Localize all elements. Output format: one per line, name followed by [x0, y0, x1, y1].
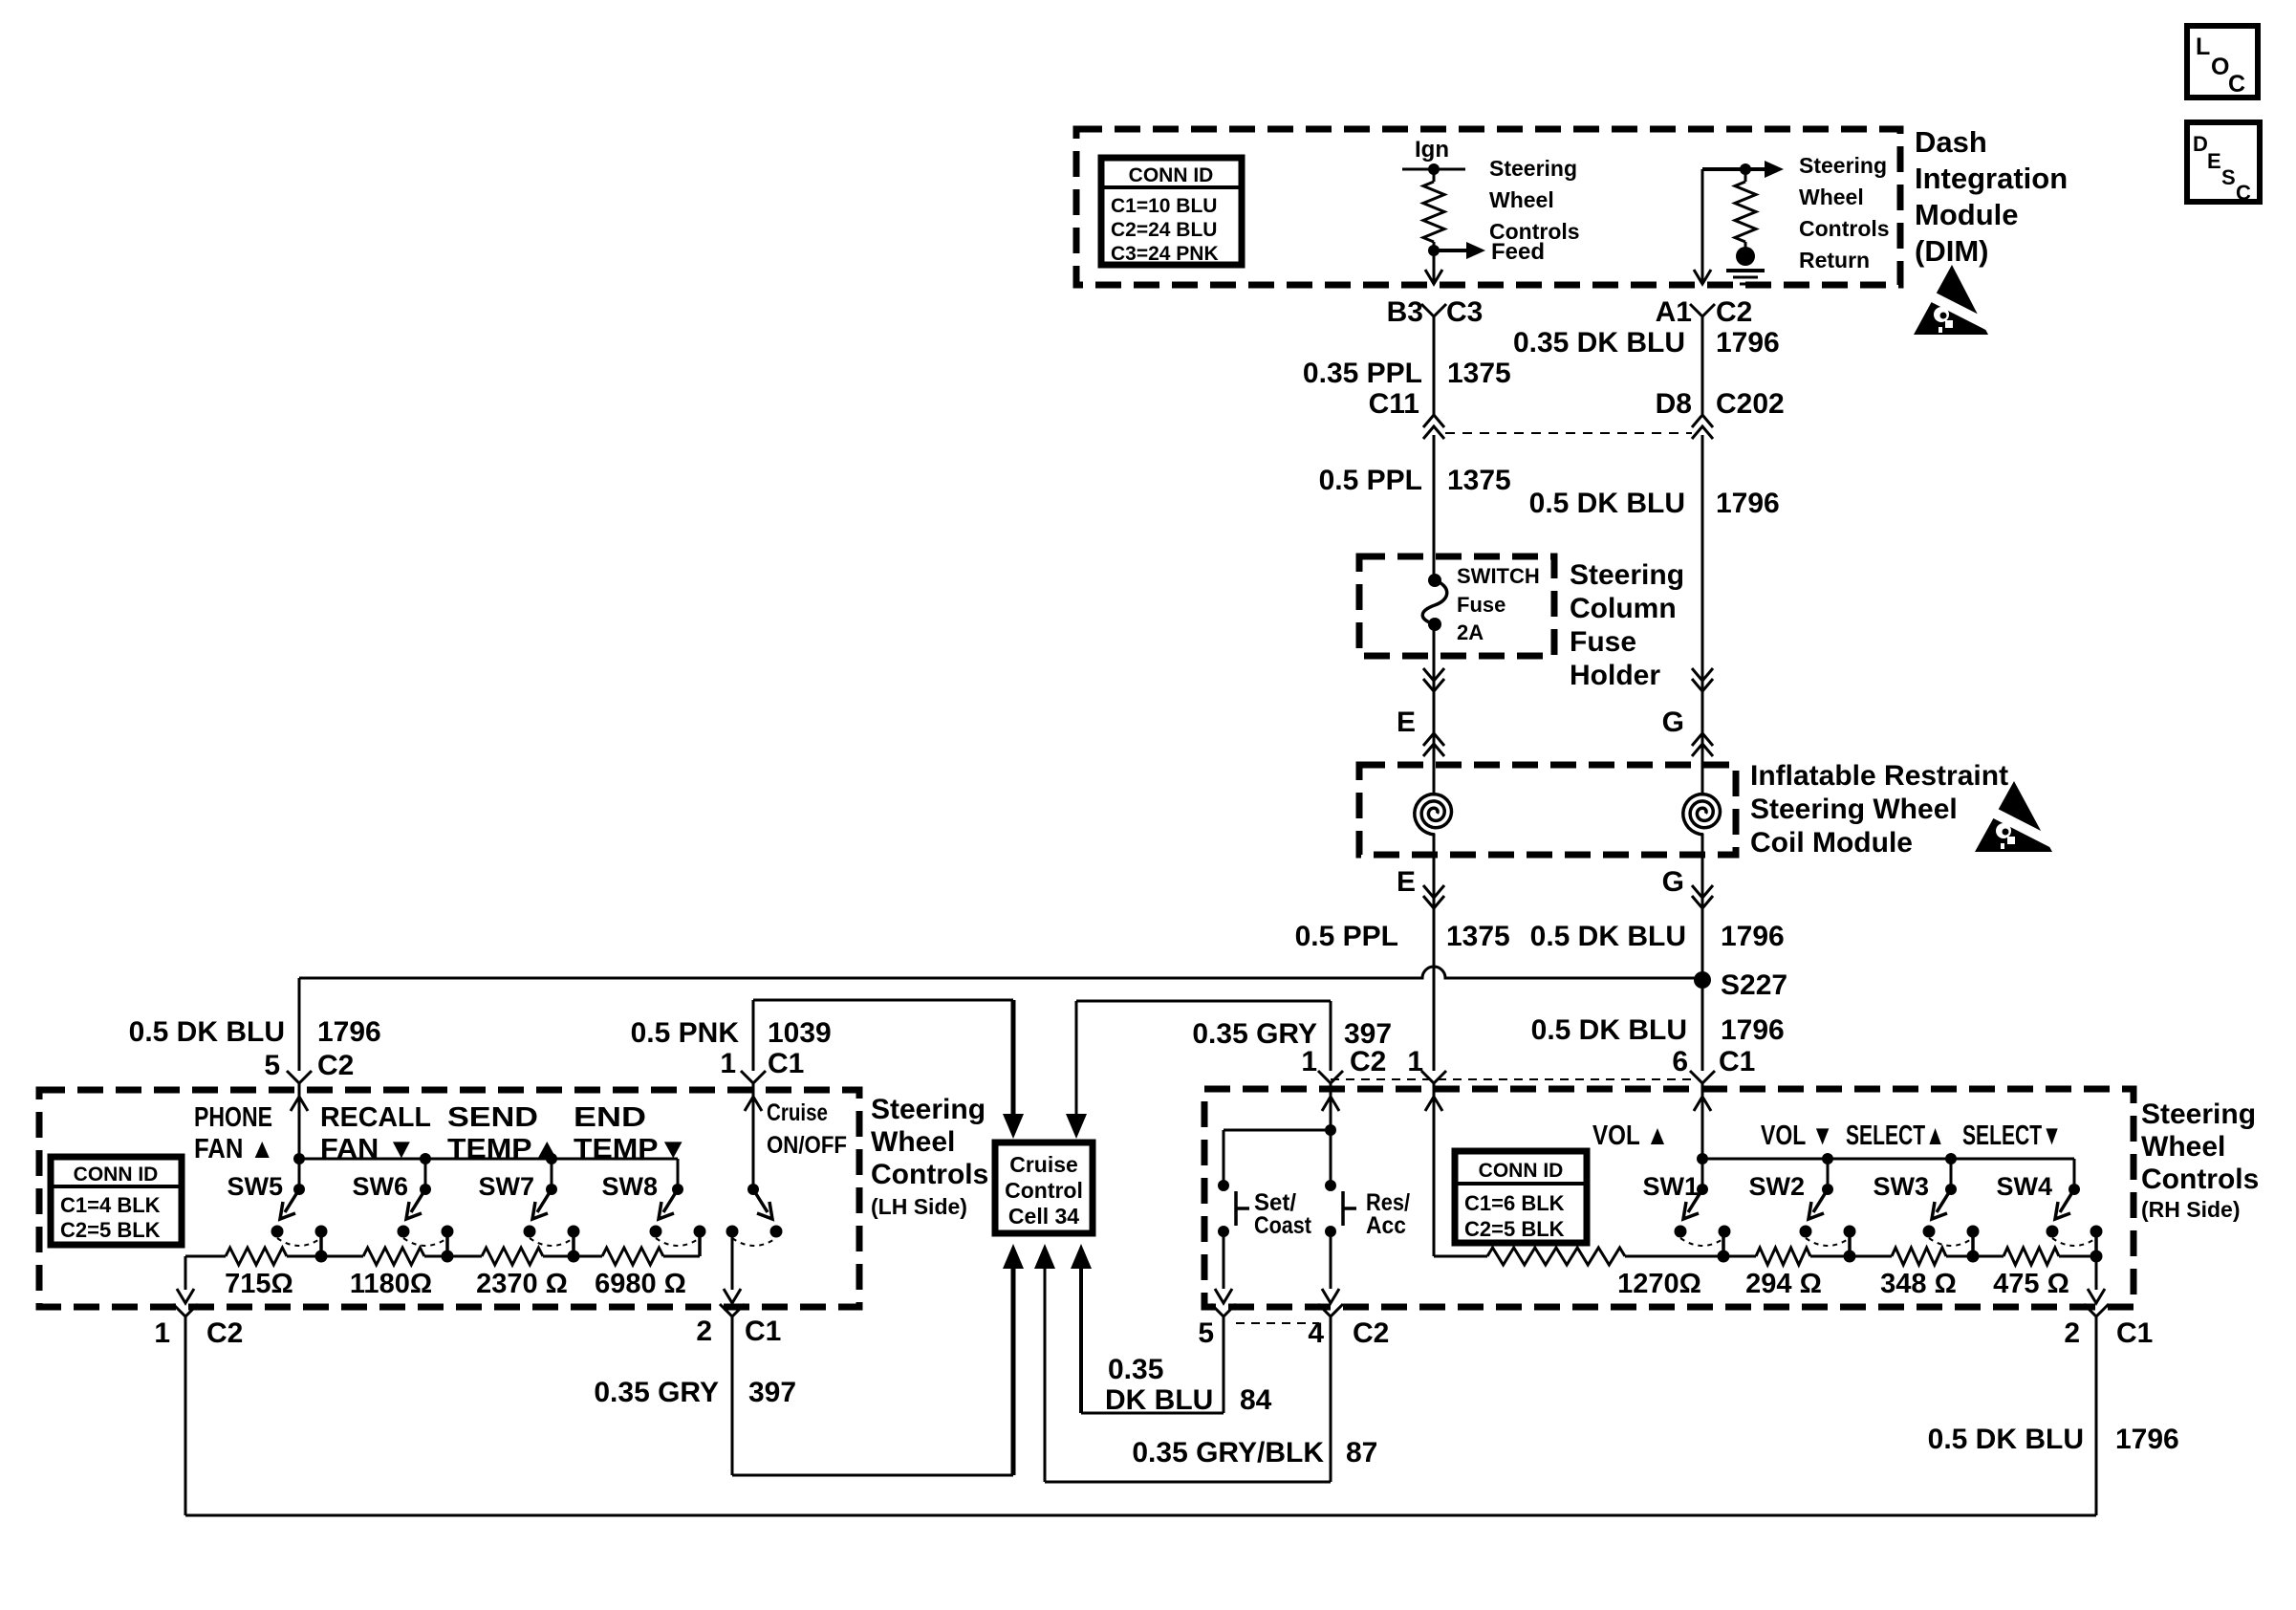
wire 0.35 GRY 397 into set/coast box — [1330, 1001, 1332, 1071]
svg-text:Steering: Steering — [871, 1094, 986, 1125]
CONN ID table (RH) — [1455, 1151, 1587, 1243]
svg-text:Cell 34: Cell 34 — [1008, 1204, 1079, 1229]
svg-text:D: D — [2193, 132, 2208, 156]
svg-text:C1: C1 — [2116, 1317, 2153, 1349]
svg-text:1: 1 — [720, 1048, 736, 1079]
svg-text:C1: C1 — [1719, 1046, 1755, 1077]
svg-text:475 Ω: 475 Ω — [1993, 1269, 2069, 1299]
wire 0.35 DK BLU 1796 — [1701, 316, 1704, 416]
svg-text:C1=4 BLK: C1=4 BLK — [60, 1193, 161, 1217]
svg-text:1: 1 — [1301, 1046, 1317, 1077]
svg-text:S: S — [2221, 165, 2236, 189]
svg-text:O: O — [2211, 54, 2229, 80]
wire GRY/BLK 87 into cruise bottom (arrow up) — [1044, 1265, 1047, 1482]
svg-text:2A: 2A — [1457, 620, 1484, 644]
svg-text:Acc: Acc — [1366, 1212, 1406, 1239]
Steering Wheel Controls (LH Side) dashed box — [39, 1090, 859, 1307]
svg-text:1796: 1796 — [317, 1016, 381, 1048]
svg-text:1: 1 — [154, 1317, 170, 1349]
wire 0.35 PPL 1375 — [1433, 316, 1436, 416]
svg-text:Fuse: Fuse — [1457, 593, 1505, 617]
resistor 715 ohm — [226, 1248, 287, 1265]
svg-text:0.35 GRY: 0.35 GRY — [1192, 1018, 1317, 1050]
svg-text:CONN ID: CONN ID — [1129, 164, 1214, 186]
svg-text:84: 84 — [1240, 1384, 1272, 1416]
svg-text:SWITCH: SWITCH — [1457, 564, 1540, 588]
svg-text:G: G — [1662, 866, 1684, 898]
LOC reference box — [2187, 26, 2258, 98]
svg-text:Controls: Controls — [1489, 219, 1580, 244]
wire PNK into cruise control top (arrow down) — [1011, 1000, 1016, 1118]
svg-text:C3: C3 — [1446, 296, 1483, 328]
svg-text:0.5 DK BLU: 0.5 DK BLU — [1529, 488, 1685, 519]
svg-text:VOL ▼: VOL ▼ — [1761, 1120, 1833, 1151]
wire 0.5 DK BLU 1796 to LH controls — [298, 978, 301, 1071]
svg-text:2: 2 — [696, 1316, 712, 1347]
Steering Column Fuse Holder dashed box — [1359, 556, 1554, 656]
node chain end SW8 — [698, 1231, 702, 1256]
node chain junction SW2 — [1848, 1231, 1852, 1256]
svg-text:Coil Module: Coil Module — [1750, 827, 1913, 859]
svg-text:SW3: SW3 — [1873, 1172, 1929, 1201]
svg-text:2370 Ω: 2370 Ω — [476, 1269, 568, 1299]
svg-text:SEND: SEND — [447, 1102, 538, 1133]
wire bottom return run — [185, 1514, 2096, 1517]
svg-text:(DIM): (DIM) — [1915, 234, 1988, 268]
coil left (clockspring) — [1433, 765, 1436, 793]
resistor 1270 ohm — [1487, 1248, 1625, 1265]
svg-text:CONN ID: CONN ID — [74, 1164, 159, 1186]
svg-text:5: 5 — [264, 1050, 280, 1081]
splice S227 — [1694, 971, 1711, 989]
svg-text:C1=6 BLK: C1=6 BLK — [1464, 1191, 1565, 1215]
wire 0.5 PPL 1375 — [1433, 435, 1436, 556]
dashed connector line C202 — [1445, 432, 1692, 434]
svg-text:1796: 1796 — [1716, 488, 1780, 519]
wire RH resistor chain — [1434, 1255, 1487, 1258]
svg-text:715Ω: 715Ω — [225, 1269, 293, 1299]
svg-text:(RH Side): (RH Side) — [2141, 1197, 2241, 1222]
svg-text:PHONE: PHONE — [194, 1102, 272, 1133]
svg-text:0.35: 0.35 — [1108, 1354, 1163, 1385]
svg-text:294 Ω: 294 Ω — [1745, 1269, 1822, 1299]
svg-text:6980 Ω: 6980 Ω — [595, 1269, 686, 1299]
wire LH resistor chain — [185, 1255, 226, 1258]
svg-text:Wheel: Wheel — [871, 1126, 955, 1158]
svg-text:SW5: SW5 — [227, 1172, 283, 1201]
svg-text:B3: B3 — [1387, 296, 1423, 328]
svg-text:1375: 1375 — [1447, 465, 1511, 496]
wire set/coast output pin 5 — [1223, 1231, 1225, 1289]
connector B3 C3 — [1421, 304, 1446, 316]
svg-text:0.35 PPL: 0.35 PPL — [1303, 358, 1422, 389]
svg-text:Wheel: Wheel — [1489, 187, 1554, 212]
connector E lower — [1433, 855, 1436, 1071]
svg-text:C11: C11 — [1369, 388, 1419, 420]
ESD warning triangle (coil module) — [1975, 781, 2061, 852]
svg-text:Steering: Steering — [2141, 1099, 2256, 1130]
svg-text:FAN ▲: FAN ▲ — [194, 1134, 274, 1164]
svg-text:SW7: SW7 — [478, 1172, 534, 1201]
svg-text:C2: C2 — [1716, 296, 1752, 328]
svg-text:0.35 GRY: 0.35 GRY — [594, 1377, 719, 1408]
wire GRY into cruise control (arrow up) — [1011, 1265, 1016, 1475]
svg-text:C2: C2 — [317, 1050, 354, 1081]
wire LH chain output to pin 1 C2 — [184, 1256, 187, 1290]
svg-text:CONN ID: CONN ID — [1479, 1160, 1564, 1182]
dashed connector line pins 5-4 — [1236, 1322, 1319, 1324]
svg-text:0.5 DK BLU: 0.5 DK BLU — [129, 1016, 285, 1048]
svg-text:Return: Return — [1799, 248, 1870, 272]
svg-text:C2=5 BLK: C2=5 BLK — [1464, 1217, 1565, 1241]
svg-text:348 Ω: 348 Ω — [1880, 1269, 1957, 1299]
DESC reference box — [2187, 122, 2260, 202]
svg-text:Coast: Coast — [1254, 1212, 1312, 1239]
wire DK BLU 84 into cruise bottom (arrow up) — [1079, 1265, 1083, 1413]
Cruise Control Cell 34 box — [995, 1142, 1093, 1233]
connector A1 C2 — [1690, 304, 1715, 316]
svg-text:C3=24 PNK: C3=24 PNK — [1111, 243, 1219, 265]
svg-text:Inflatable Restraint: Inflatable Restraint — [1750, 760, 2008, 792]
fuse SWITCH Fuse 2A — [1433, 556, 1436, 580]
svg-text:E: E — [1397, 866, 1416, 898]
ground (DIM return) — [1736, 247, 1755, 266]
svg-text:Cruise: Cruise — [1009, 1152, 1078, 1177]
resistor Steering Wheel Controls Return — [1744, 169, 1747, 182]
wire return inside DIM — [1702, 167, 1765, 171]
svg-text:Ign: Ign — [1415, 137, 1449, 163]
svg-text:Holder: Holder — [1570, 660, 1660, 691]
node chain junction SW5 — [319, 1231, 323, 1256]
svg-text:SELECT▼: SELECT▼ — [1962, 1120, 2062, 1151]
svg-text:C2: C2 — [206, 1317, 243, 1349]
svg-text:Dash: Dash — [1915, 125, 1987, 159]
svg-text:D8: D8 — [1656, 388, 1692, 420]
svg-text:SELECT▲: SELECT▲ — [1846, 1120, 1945, 1151]
resistor 2370 ohm — [482, 1248, 543, 1265]
svg-text:Column: Column — [1570, 593, 1677, 624]
svg-text:VOL ▲: VOL ▲ — [1592, 1120, 1669, 1151]
connector E upper — [1433, 656, 1436, 765]
svg-text:1796: 1796 — [1721, 921, 1785, 952]
svg-text:SW2: SW2 — [1748, 1172, 1805, 1201]
svg-text:1796: 1796 — [1721, 1014, 1785, 1046]
svg-text:0.5 PPL: 0.5 PPL — [1295, 921, 1398, 952]
svg-text:C1=10 BLU: C1=10 BLU — [1111, 195, 1217, 217]
resistor Steering Wheel Controls Feed — [1433, 169, 1436, 182]
coil right (clockspring) — [1701, 765, 1704, 793]
svg-text:SW8: SW8 — [601, 1172, 658, 1201]
svg-text:G: G — [1662, 707, 1684, 738]
svg-text:5: 5 — [1198, 1317, 1214, 1349]
svg-text:L: L — [2196, 33, 2210, 60]
svg-text:397: 397 — [748, 1377, 796, 1408]
svg-text:SW1: SW1 — [1642, 1172, 1699, 1201]
svg-text:C: C — [2228, 71, 2245, 98]
svg-text:SW6: SW6 — [352, 1172, 408, 1201]
Dash Integration Module (DIM) dashed box — [1076, 129, 1900, 285]
wire feed exit of DIM — [1433, 250, 1436, 283]
svg-text:Module: Module — [1915, 198, 2019, 231]
svg-text:1270Ω: 1270Ω — [1617, 1269, 1701, 1299]
svg-text:E: E — [2207, 149, 2221, 173]
wire 0.5 DK BLU 1796 (to coil module) — [1701, 435, 1704, 765]
svg-text:Control: Control — [1005, 1178, 1083, 1203]
svg-text:END: END — [574, 1102, 646, 1133]
svg-text:C2=5 BLK: C2=5 BLK — [60, 1218, 161, 1242]
dashed connector line C1 pins 1-6 — [1331, 1078, 1692, 1080]
node on return wire — [1740, 163, 1751, 175]
svg-text:87: 87 — [1346, 1437, 1377, 1469]
Steering Wheel Controls (RH Side) dashed box — [1204, 1089, 2134, 1307]
resistor 348 ohm — [1892, 1248, 1946, 1265]
svg-text:DK BLU: DK BLU — [1105, 1384, 1213, 1416]
svg-text:C2: C2 — [1350, 1046, 1386, 1077]
resistor 294 ohm — [1756, 1248, 1810, 1265]
resistor 1180 ohm — [363, 1248, 424, 1265]
wire 0.5 PNK 1039 — [753, 999, 1013, 1002]
connector G upper — [1692, 668, 1713, 681]
node chain junction SW3 — [1971, 1231, 1975, 1256]
svg-text:C2=24 BLU: C2=24 BLU — [1111, 219, 1217, 241]
svg-text:C1: C1 — [745, 1316, 781, 1347]
svg-text:Controls: Controls — [2141, 1164, 2259, 1195]
svg-text:0.35 GRY/BLK: 0.35 GRY/BLK — [1132, 1437, 1324, 1469]
resistor 475 ohm — [2004, 1248, 2059, 1265]
wire RH output pin 2 C1 — [2095, 1256, 2098, 1290]
svg-text:Controls: Controls — [1799, 216, 1890, 241]
resistor 6980 ohm — [602, 1248, 663, 1265]
inline connector C11 — [1423, 415, 1444, 427]
svg-text:C202: C202 — [1716, 388, 1785, 420]
svg-text:4: 4 — [1308, 1317, 1324, 1349]
svg-text:ON/OFF: ON/OFF — [767, 1132, 847, 1159]
svg-text:C1: C1 — [768, 1048, 804, 1079]
svg-text:2: 2 — [2064, 1317, 2080, 1349]
svg-text:Wheel: Wheel — [1799, 185, 1864, 209]
svg-text:1796: 1796 — [1716, 327, 1780, 359]
svg-text:1796: 1796 — [2115, 1424, 2179, 1455]
connector G lower — [1701, 855, 1704, 1071]
svg-text:6: 6 — [1672, 1046, 1688, 1077]
svg-text:(LH Side): (LH Side) — [871, 1194, 967, 1219]
svg-text:1375: 1375 — [1447, 358, 1511, 389]
switch Set/Coast — [1218, 1180, 1229, 1191]
svg-text:1180Ω: 1180Ω — [350, 1269, 432, 1299]
svg-text:A1: A1 — [1656, 296, 1692, 328]
ESD warning triangle (DIM) — [1914, 265, 1998, 335]
svg-text:1375: 1375 — [1446, 921, 1510, 952]
svg-text:S227: S227 — [1721, 969, 1787, 1001]
CONN ID table (DIM) — [1101, 158, 1242, 265]
node set/coast branch — [1325, 1124, 1336, 1136]
svg-text:Controls: Controls — [871, 1159, 988, 1190]
wire GRY 397 from set/coast into cruise top (arrow down) — [1076, 1000, 1331, 1003]
switch Res/Acc — [1325, 1180, 1336, 1191]
Inflatable Restraint Steering Wheel Coil Module dashed box — [1359, 765, 1736, 855]
wire LH switch bus — [299, 1158, 678, 1161]
svg-text:0.5 DK BLU: 0.5 DK BLU — [1928, 1424, 2084, 1455]
svg-text:0.35 DK BLU: 0.35 DK BLU — [1513, 327, 1685, 359]
inline connector D8 C202 — [1692, 415, 1713, 427]
svg-text:0.5 DK BLU: 0.5 DK BLU — [1530, 921, 1686, 952]
node chain junction SW7 — [572, 1231, 575, 1256]
svg-text:RECALL: RECALL — [320, 1102, 431, 1133]
node Feed / arrow — [1428, 245, 1440, 256]
wire splice branch S227 horizontal — [299, 967, 1702, 978]
CONN ID table (LH) — [51, 1157, 182, 1245]
svg-text:SW4: SW4 — [1996, 1172, 2052, 1201]
svg-text:0.5 PPL: 0.5 PPL — [1319, 465, 1422, 496]
svg-text:Wheel: Wheel — [2141, 1131, 2225, 1163]
svg-text:0.5 PNK: 0.5 PNK — [631, 1017, 740, 1049]
wire res/acc output pin 4 C2 — [1330, 1231, 1332, 1289]
wire RH switch bus — [1702, 1158, 2074, 1161]
svg-text:Fuse: Fuse — [1570, 626, 1636, 658]
svg-text:Integration: Integration — [1915, 162, 2068, 195]
svg-text:Steering: Steering — [1489, 156, 1577, 181]
svg-text:Steering: Steering — [1799, 153, 1887, 178]
node chain junction SW1 — [1722, 1231, 1725, 1256]
svg-text:Steering: Steering — [1570, 559, 1684, 591]
wire cruise output 0.35 GRY 397 — [731, 1231, 734, 1290]
svg-text:1: 1 — [1407, 1046, 1423, 1077]
node chain end SW4 junction — [2094, 1231, 2098, 1256]
svg-text:0.5 DK BLU: 0.5 DK BLU — [1531, 1014, 1687, 1046]
svg-text:C: C — [2236, 181, 2251, 205]
svg-text:E: E — [1397, 707, 1416, 738]
svg-text:C2: C2 — [1353, 1317, 1389, 1349]
svg-text:Steering Wheel: Steering Wheel — [1750, 794, 1958, 825]
node chain junction SW6 — [445, 1231, 449, 1256]
svg-text:Cruise: Cruise — [767, 1099, 828, 1126]
svg-text:1039: 1039 — [768, 1017, 832, 1049]
